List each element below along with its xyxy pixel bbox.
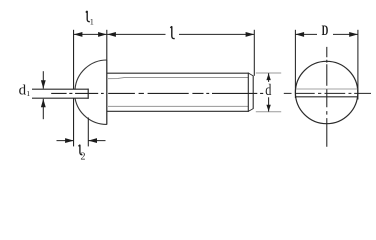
arrow D right [349, 32, 358, 37]
thread root line bottom [108, 105, 248, 107]
extension line l2 right (slot depth) [87, 118, 89, 147]
D extension line right [357, 30, 359, 100]
d extension line top [256, 72, 281, 74]
shaft end face [252, 76, 254, 109]
D extension line left [294, 30, 296, 98]
dimension line d (vertical, gap at label) [268, 73, 270, 82]
screw head face line [106, 60, 108, 125]
dimension d1 arrow stub bottom [42, 99, 44, 119]
slot bottom (depth) line [87, 89, 89, 99]
dimension line l (two segments, gap at label) [107, 33, 166, 35]
arrow l1 left [74, 32, 83, 37]
screw head outline lower dome arc [75, 98, 107, 124]
slot top line with d1 extension [32, 88, 89, 90]
extension line left upper (l1 at dome tip) [73, 30, 75, 89]
front view slot top line (thin) [295, 88, 358, 90]
d extension line bottom [256, 111, 281, 113]
shaft bottom outline [107, 110, 249, 112]
label l2 [79, 145, 83, 155]
label l1 [86, 11, 90, 22]
extension line left lower (l2 at dome tip) [73, 98, 75, 146]
front view head circle [295, 61, 357, 123]
dimension d1 arrow stub top [42, 71, 44, 88]
arrow l1 right [98, 32, 107, 37]
thread root line top [108, 78, 248, 79]
dimension l2 arrow stub left [57, 140, 74, 142]
arrow l right [246, 32, 255, 37]
dimension l2 arrow stub right [88, 140, 105, 142]
svg-text:2: 2 [81, 152, 86, 163]
shaft top outline [107, 72, 249, 74]
arrow d down [266, 105, 270, 112]
svg-text:1: 1 [26, 89, 30, 98]
front view vertical centerline [326, 47, 328, 147]
chamfer diagonal top [248, 73, 253, 76]
slot bottom line with d1 extension [32, 97, 89, 99]
svg-text:1: 1 [90, 17, 94, 26]
arrow D left [295, 32, 304, 37]
svg-text:d: d [265, 82, 271, 100]
svg-text:D: D [322, 22, 329, 39]
arrow d up [266, 73, 270, 80]
centerline side view [51, 92, 263, 94]
arrow l left [107, 32, 116, 37]
chamfer diagonal bottom [248, 109, 253, 112]
front view horizontal centerline [284, 92, 371, 94]
screw head outline upper dome arc [75, 60, 107, 89]
front view slot bottom line [295, 96, 358, 98]
label l [170, 26, 174, 38]
dimension line D (gap at label) [295, 33, 317, 35]
dimension line l1 [74, 33, 107, 35]
extension line shaft end up to dim [253, 30, 255, 76]
extension line head face up to dim [106, 30, 108, 60]
shaft end chamfer line [247, 73, 249, 112]
